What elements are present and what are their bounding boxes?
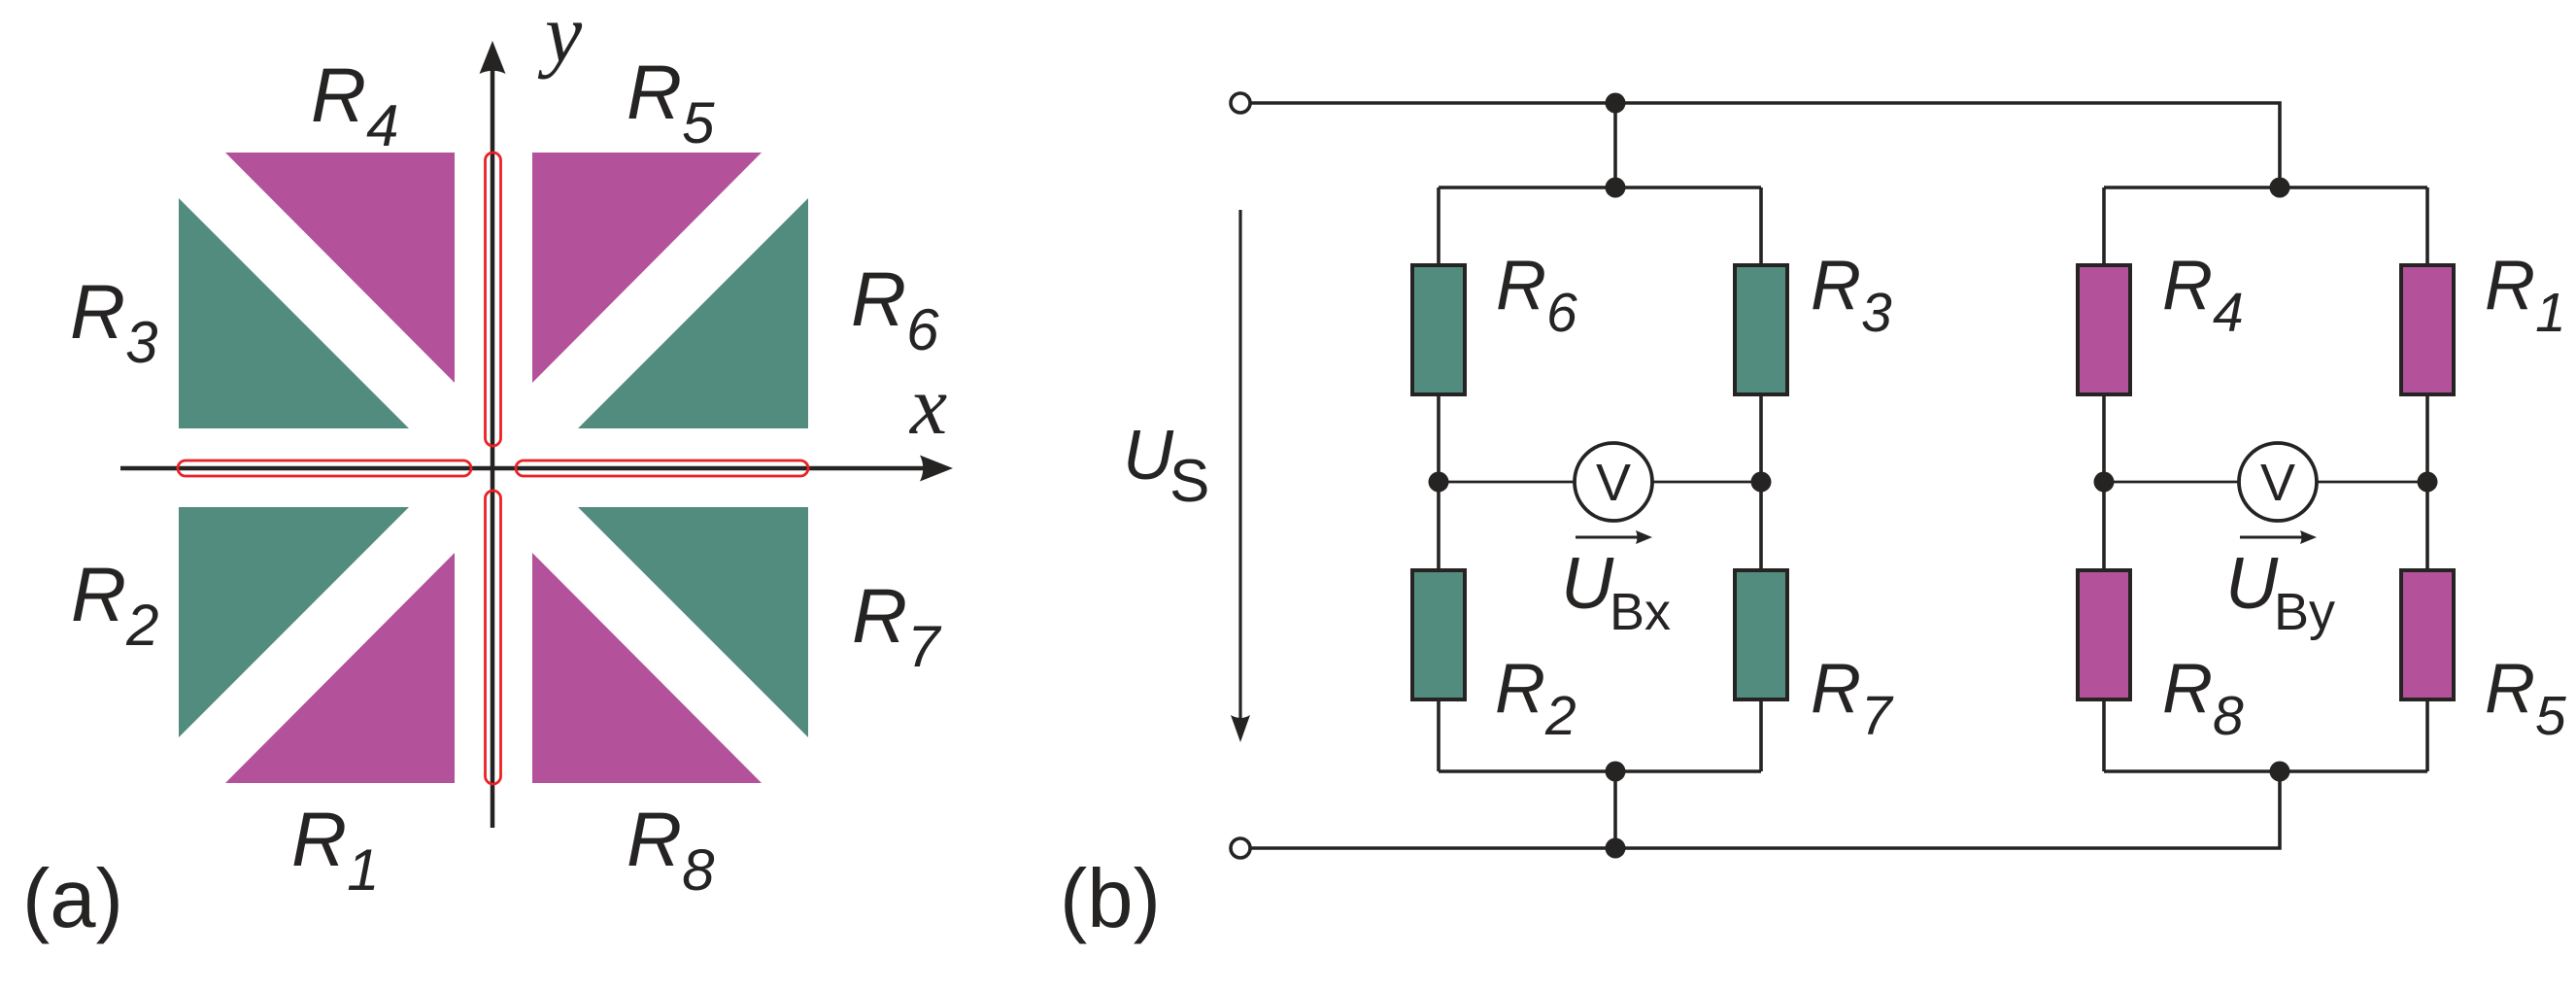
resistor R4 (magenta triangle, top-left quadrant) xyxy=(225,153,455,383)
resistor R2 (bridge x lower-left, teal) xyxy=(1412,570,1465,699)
resistor R1 (bridge y upper-right, magenta) xyxy=(2401,265,2454,394)
terminal bottom-left xyxy=(1231,838,1250,858)
gauge outline left (red stadium on x-axis, negative side) xyxy=(178,460,471,476)
svg-text:U: U xyxy=(1123,417,1174,494)
svg-text:R8: R8 xyxy=(627,796,715,903)
wire y-axis xyxy=(491,68,495,828)
wire bridge x left rail xyxy=(1437,188,1441,771)
wire bridge y right rail xyxy=(2425,188,2429,771)
svg-text:R2: R2 xyxy=(1495,650,1576,747)
wire bridge x mid-left to voltmeter xyxy=(1439,481,1575,484)
svg-text:S: S xyxy=(1169,448,1209,515)
voltmeter U1 (bridge x) xyxy=(1575,443,1652,521)
resistor R5 (bridge y lower-right, magenta) xyxy=(2401,570,2454,699)
resistor R8 (magenta triangle, bottom-right quadrant) xyxy=(532,553,762,783)
wire bridge y left rail xyxy=(2102,188,2106,771)
node junction bottom wire / bridge x xyxy=(1606,838,1626,859)
svg-text:V: V xyxy=(1596,454,1631,512)
resistor R6 (teal triangle, right upper) xyxy=(578,198,808,428)
svg-text:y: y xyxy=(537,0,583,80)
resistor R3 (teal triangle, left upper) xyxy=(179,198,409,428)
resistor R3 (bridge x upper-right, teal) xyxy=(1735,265,1787,394)
vector arrow U_By xyxy=(2240,536,2304,539)
supply voltage arrow U_S xyxy=(1238,210,1241,719)
svg-text:R6: R6 xyxy=(1496,247,1577,344)
svg-text:R1: R1 xyxy=(2485,247,2566,344)
node junction top wire / bridge x xyxy=(1606,93,1626,114)
resistor R2 (teal triangle, left lower) xyxy=(179,507,409,737)
node bridge y mid-right xyxy=(2418,472,2438,493)
svg-text:x: x xyxy=(908,358,947,452)
node bridge y bottom xyxy=(2270,762,2290,782)
svg-text:U: U xyxy=(2225,542,2279,624)
svg-text:R1: R1 xyxy=(291,796,379,903)
node bridge x bottom xyxy=(1606,762,1626,782)
wire stub bottom of bridge x xyxy=(1613,771,1617,848)
wire voltmeter to bridge x mid-right xyxy=(1652,481,1761,484)
svg-text:R7: R7 xyxy=(1811,650,1894,747)
gauge outline top (red stadium on y-axis, positive side) xyxy=(486,153,501,446)
resistor R7 (bridge x lower-right, teal) xyxy=(1735,570,1787,699)
wire voltmeter to bridge y mid-right xyxy=(2317,481,2427,484)
wire bridge x bottom xyxy=(1439,769,1761,773)
gauge outline right (red stadium on x-axis, positive side) xyxy=(516,460,808,476)
svg-text:By: By xyxy=(2274,583,2335,641)
vector arrow U_Bx xyxy=(1576,536,1640,539)
node bridge x mid-left xyxy=(1429,472,1449,493)
svg-text:R4: R4 xyxy=(311,51,398,158)
resistor R6 (bridge x upper-left, teal) xyxy=(1412,265,1465,394)
wire bridge y top xyxy=(2104,186,2427,189)
wire bottom supply rail xyxy=(1249,771,2280,848)
svg-text:(b): (b) xyxy=(1060,853,1161,945)
svg-text:R5: R5 xyxy=(627,49,715,155)
node bridge y mid-left xyxy=(2094,472,2115,493)
svg-text:R4: R4 xyxy=(2162,247,2244,344)
wire x-axis xyxy=(120,466,925,471)
wire bridge x right rail xyxy=(1759,188,1763,771)
wire bridge y bottom xyxy=(2104,769,2427,773)
resistor R7 (teal triangle, right lower) xyxy=(578,507,808,737)
wire bridge y mid-left to voltmeter xyxy=(2104,481,2239,484)
voltmeter U2 (bridge y) xyxy=(2239,443,2317,521)
svg-text:V: V xyxy=(2260,454,2295,512)
resistor R1 (magenta triangle, bottom-left quadrant) xyxy=(225,553,455,783)
y-axis arrowhead xyxy=(480,41,506,74)
svg-text:R3: R3 xyxy=(1811,247,1892,344)
node bridge x mid-right xyxy=(1751,472,1772,493)
node bridge x top xyxy=(1606,178,1626,198)
svg-text:R2: R2 xyxy=(71,551,158,658)
svg-text:U: U xyxy=(1561,542,1614,624)
gauge outline bottom (red stadium on y-axis, negative side) xyxy=(486,491,501,784)
wire top supply rail xyxy=(1249,103,2280,188)
x-axis arrowhead xyxy=(920,456,953,482)
resistor R5 (magenta triangle, top-right quadrant) xyxy=(532,153,762,383)
svg-text:(a): (a) xyxy=(22,853,123,945)
resistor R4 (bridge y upper-left, magenta) xyxy=(2078,265,2130,394)
node bridge y top xyxy=(2270,178,2290,198)
svg-text:R6: R6 xyxy=(851,256,939,362)
wire stub top of bridge x xyxy=(1613,103,1617,188)
svg-text:R3: R3 xyxy=(70,268,157,375)
svg-text:R8: R8 xyxy=(2162,650,2244,747)
svg-text:R5: R5 xyxy=(2485,650,2566,747)
wire bridge x top xyxy=(1439,186,1761,189)
svg-text:Bx: Bx xyxy=(1610,583,1671,641)
terminal top-left xyxy=(1231,93,1250,113)
svg-text:R7: R7 xyxy=(852,572,942,679)
resistor R8 (bridge y lower-left, magenta) xyxy=(2078,570,2130,699)
